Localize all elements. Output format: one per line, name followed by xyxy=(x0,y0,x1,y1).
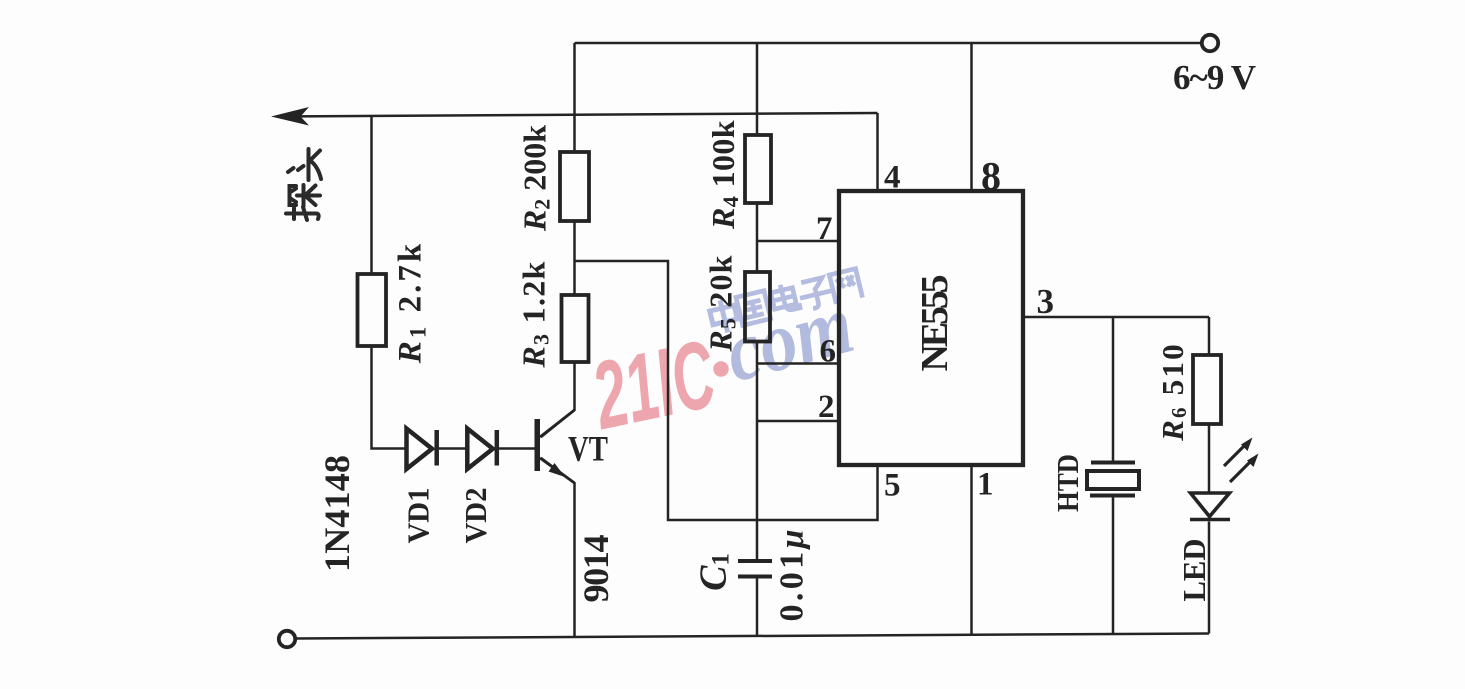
svg-text:R3 1.2k: R3 1.2k xyxy=(516,260,554,368)
svg-text:R1 2.7k: R1 2.7k xyxy=(393,241,431,364)
svg-text:4: 4 xyxy=(884,160,901,196)
svg-text:1: 1 xyxy=(977,467,994,503)
svg-text:9014: 9014 xyxy=(576,535,616,603)
svg-text:VD2: VD2 xyxy=(458,488,493,544)
svg-text:LED: LED xyxy=(1176,539,1212,602)
svg-text:8: 8 xyxy=(981,154,1001,199)
svg-text:6~9 V: 6~9 V xyxy=(1173,58,1256,97)
svg-text:1N4148: 1N4148 xyxy=(317,455,357,572)
svg-text:7: 7 xyxy=(816,211,833,247)
svg-text:2: 2 xyxy=(818,389,835,425)
svg-text:VD1: VD1 xyxy=(401,488,436,544)
svg-text:3: 3 xyxy=(1037,282,1055,321)
svg-text:5: 5 xyxy=(884,468,901,504)
svg-text:R6 510: R6 510 xyxy=(1155,342,1192,442)
svg-text:0.01μ: 0.01μ xyxy=(774,530,811,622)
svg-text:NE555: NE555 xyxy=(914,275,956,372)
svg-text:6: 6 xyxy=(820,334,837,370)
svg-text:R4 100k: R4 100k xyxy=(705,120,743,230)
svg-text:R5 20k: R5 20k xyxy=(703,254,741,352)
svg-text:R2 200k: R2 200k xyxy=(517,125,555,232)
svg-text:VT: VT xyxy=(568,429,608,469)
svg-text:HTD: HTD xyxy=(1050,454,1085,512)
